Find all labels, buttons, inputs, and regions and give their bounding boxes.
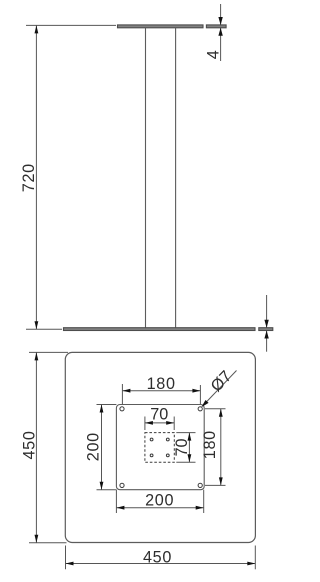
svg-text:720: 720 [20,163,38,192]
dimension 720 (column height) [26,25,116,329]
dimension 70 (column depth, right of dashed square) [176,433,195,463]
weld hole top-right [166,438,169,441]
svg-text:450: 450 [20,430,38,459]
column cross-section 70x70 (hidden, dashed) [145,433,174,463]
extension bar at base plate [259,328,273,331]
column left edge (front view) [145,28,147,328]
hole top-left [120,407,124,411]
dimension 180 (hole spacing, right) [205,409,226,486]
dimension 200 (plate width, bottom) [116,490,203,513]
hole top-right [198,407,202,411]
dimension 70 (column width, top) [145,417,174,431]
dimension 180 (hole spacing, top) [122,384,200,405]
svg-text:70: 70 [150,406,168,424]
dimension 450 (base width, bottom) [66,546,256,570]
top plate (front view) [118,25,204,28]
svg-text:200: 200 [145,492,174,510]
extension bar at plate (4 dim) [206,25,226,28]
weld hole bottom-left [150,454,153,457]
svg-text:4: 4 [205,50,223,59]
svg-text:450: 450 [143,548,172,566]
dimension 450 (base depth, left) [29,352,68,542]
weld hole bottom-right [166,454,169,457]
mounting plate 200x200 (plan view) [116,405,204,490]
svg-text:180: 180 [201,430,219,459]
dimension base plate thickness (right, unlabeled) [266,295,268,352]
svg-text:200: 200 [84,432,102,461]
svg-text:180: 180 [147,375,176,393]
base plate (front view) [64,328,256,331]
leader Ø7 (hole diameter callout) [203,371,237,406]
hole bottom-right [198,483,202,487]
weld hole top-left [150,438,153,441]
dimension 200 (plate height, left) [97,405,117,490]
hole bottom-left [120,483,124,487]
dimension 4 (top plate thickness) [220,4,222,61]
base plate outline 450x450 (plan view) [65,352,255,542]
svg-text:70: 70 [173,438,191,456]
column right edge (front view) [175,28,177,328]
